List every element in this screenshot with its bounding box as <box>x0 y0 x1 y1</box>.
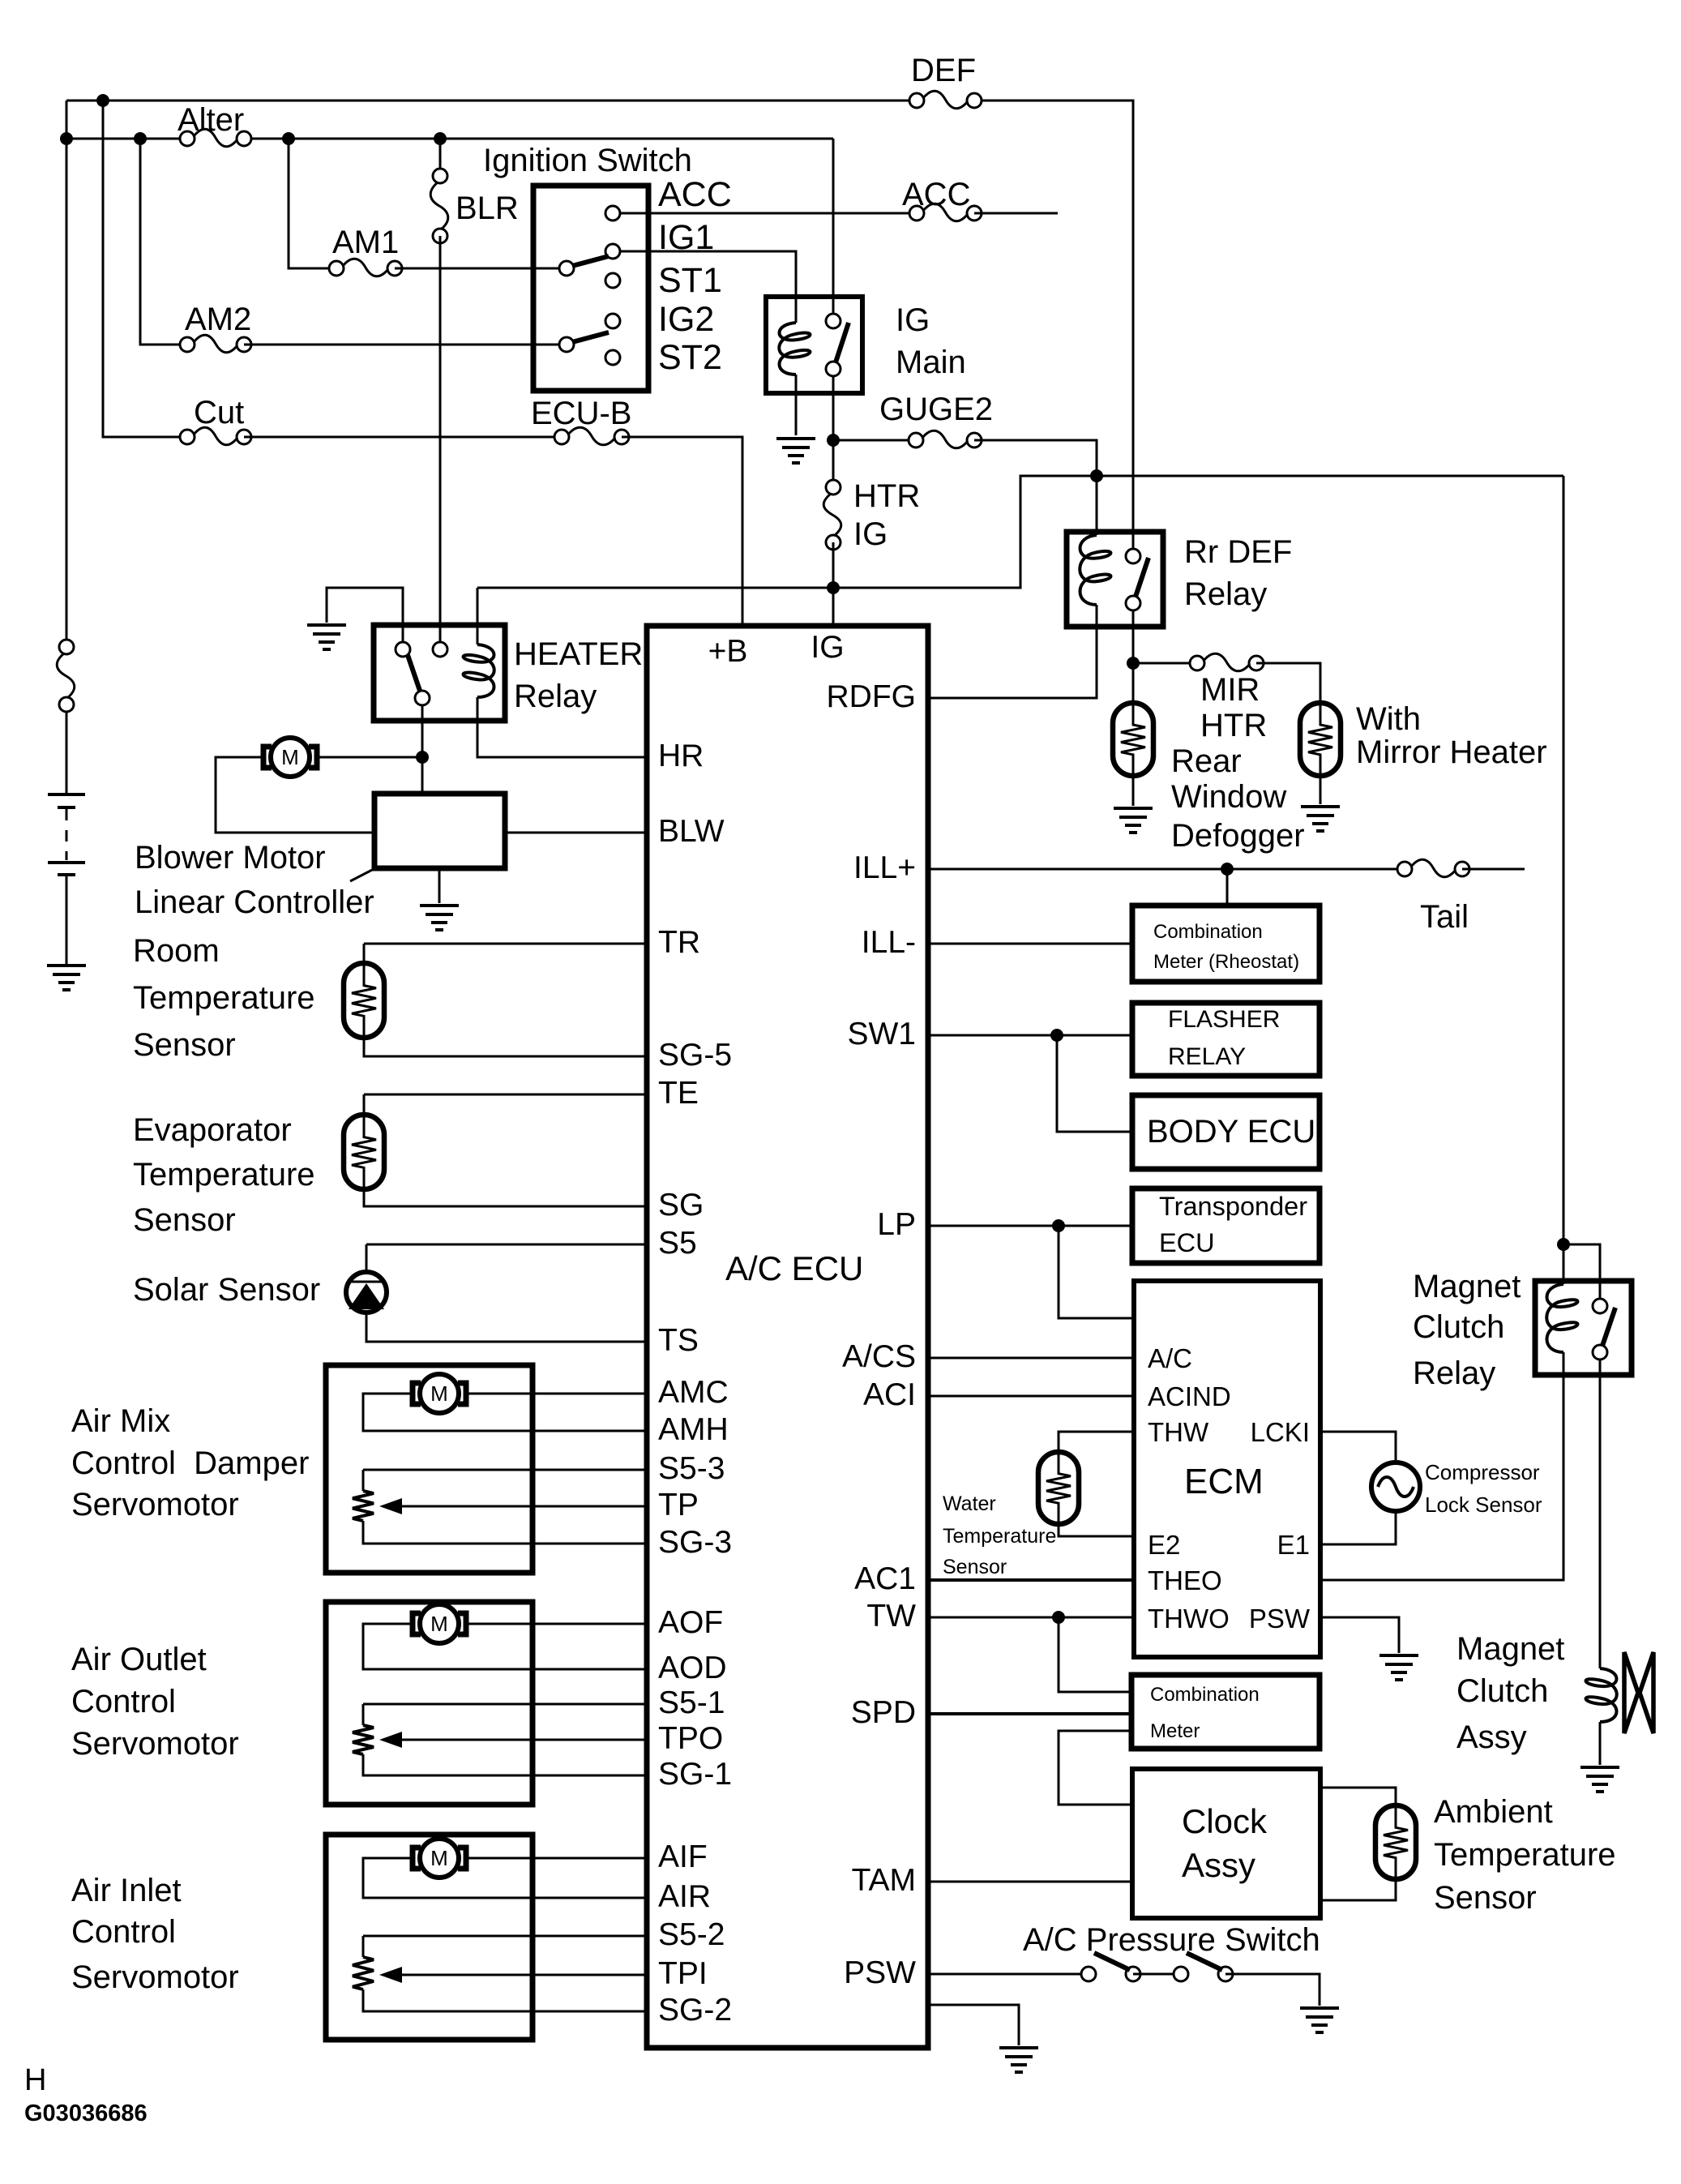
fuse battery main <box>57 640 75 712</box>
label RELAY <box>1168 1043 1246 1070</box>
wire PSW to switch <box>928 1973 1089 1976</box>
svg-text:S5-3: S5-3 <box>658 1451 725 1486</box>
svg-text:Air Inlet: Air Inlet <box>71 1873 182 1908</box>
air inlet control servomotor box <box>326 1835 533 2040</box>
junction GUGE2 node <box>1090 469 1103 482</box>
pin AC1 <box>854 1561 916 1596</box>
svg-text:SG-5: SG-5 <box>658 1038 732 1073</box>
svg-text:M: M <box>430 1612 448 1636</box>
fuse GUGE2 <box>909 430 982 448</box>
wire AM1 to ignition switch <box>395 268 560 270</box>
label pin IG1 <box>658 218 714 257</box>
pin ILL+ <box>853 850 916 885</box>
fuse HTR <box>823 480 841 550</box>
svg-text:BLR: BLR <box>456 191 519 226</box>
label Air Outlet <box>71 1642 207 1677</box>
label HEATER <box>514 636 643 672</box>
wire IG Main node to HTR fuse <box>832 440 835 487</box>
wire between switches <box>1133 1973 1181 1976</box>
wire to GUGE2 fuse <box>833 439 916 442</box>
potentiometer air inlet control servomotor <box>353 1957 374 1989</box>
wire IG Main coil to ground <box>795 375 798 435</box>
coil Rr DEF relay <box>1080 535 1110 605</box>
pin ACI <box>863 1377 916 1412</box>
wire LCKI <box>1320 1432 1396 1464</box>
svg-text:Sensor: Sensor <box>133 1202 236 1238</box>
wire BLR feed <box>439 139 442 176</box>
wire meter to clock assy <box>1059 1731 1132 1805</box>
label fuse AM2 <box>185 302 251 337</box>
wire Tail fuse output <box>1462 868 1525 871</box>
svg-text:ECU: ECU <box>1159 1228 1215 1257</box>
compressor lock sensor G1 <box>1371 1462 1420 1511</box>
ignition switch S1 <box>533 186 648 391</box>
svg-text:LCKI: LCKI <box>1251 1417 1310 1447</box>
svg-text:S5: S5 <box>658 1226 697 1261</box>
wire ACC pin to fuse <box>613 212 917 215</box>
wire heater switch to blower node <box>421 704 424 757</box>
wire AM2 to ignition switch <box>244 344 560 346</box>
svg-text:AIF: AIF <box>658 1839 708 1874</box>
wire ambient to clock bottom <box>1320 1878 1396 1900</box>
Magnet Clutch relay contacts <box>1593 1299 1607 1360</box>
junction IG Main output node <box>827 434 840 447</box>
ground A/C ECU <box>999 2048 1038 2072</box>
ignition switch contact circles <box>559 206 620 365</box>
svg-text:Relay: Relay <box>1184 576 1267 612</box>
wire S5 down <box>366 1244 368 1273</box>
fuse DEF <box>909 91 982 109</box>
fuse AM2 <box>180 335 251 353</box>
svg-text:E1: E1 <box>1277 1530 1310 1560</box>
svg-text:THEO: THEO <box>1148 1565 1222 1595</box>
label Rr DEF Relay <box>1184 576 1267 612</box>
wire air mix control damper servomotor motor out <box>468 1393 647 1395</box>
pin AOF <box>658 1605 723 1640</box>
body ECU box <box>1132 1095 1320 1169</box>
wire AC1 <box>928 1578 1134 1582</box>
fuse AM1 <box>329 259 402 276</box>
svg-text:Assy: Assy <box>1456 1719 1527 1755</box>
junction IG node <box>827 581 840 594</box>
junction magnet clutch relay feed <box>1557 1238 1570 1251</box>
wire S5 to solar sensor <box>366 1244 647 1246</box>
svg-text:Lock Sensor: Lock Sensor <box>1425 1492 1542 1517</box>
battery B1 <box>48 794 85 875</box>
wire AM2 feed <box>140 139 187 345</box>
solar sensor SS1 <box>346 1272 387 1313</box>
wire battery rail left <box>66 101 68 640</box>
wire ILL+ <box>928 868 1405 871</box>
label Solar Sensor <box>133 1272 320 1308</box>
svg-text:Rr DEF: Rr DEF <box>1184 534 1292 570</box>
svg-text:HTR: HTR <box>1200 708 1267 743</box>
svg-text:TW: TW <box>866 1599 916 1634</box>
pin TE <box>658 1076 699 1111</box>
svg-text:Control: Control <box>71 1914 176 1950</box>
svg-text:AM2: AM2 <box>185 302 251 337</box>
fuse Tail <box>1397 859 1469 877</box>
pin AIR <box>658 1879 711 1914</box>
label Lock Sensor <box>1425 1492 1542 1517</box>
label HEATER Relay <box>514 679 597 714</box>
wire IG1 pin to IG Main relay coil <box>613 251 796 323</box>
wire GUGE2 node left branch down to IG node <box>833 476 1097 588</box>
svg-text:AMC: AMC <box>658 1375 729 1410</box>
wire air mix control damper servomotor wiper <box>402 1505 647 1508</box>
svg-text:SW1: SW1 <box>847 1017 916 1051</box>
svg-text:Meter: Meter <box>1150 1720 1200 1742</box>
svg-text:Servomotor: Servomotor <box>71 1959 239 1995</box>
wire relay switch to clutch coil <box>1599 1359 1602 1668</box>
pin RDFG <box>827 679 917 714</box>
junction top bus / Cut branch <box>96 94 109 107</box>
pin S5 <box>658 1226 697 1261</box>
svg-text:THW: THW <box>1148 1417 1209 1447</box>
wire evap sensor to SG <box>364 1188 647 1206</box>
wire heater coil to HR pin <box>477 697 647 757</box>
svg-text:Cut: Cut <box>194 395 244 430</box>
wire air outlet control servomotor motor return <box>363 1624 647 1669</box>
pin TW <box>866 1599 916 1634</box>
svg-text:THWO: THWO <box>1148 1604 1230 1634</box>
junction TW branch <box>1052 1611 1065 1624</box>
pressure switch blade 1 <box>1094 1953 1130 1970</box>
label Ambient Sensor <box>1434 1880 1537 1916</box>
svg-text:A/C ECU: A/C ECU <box>725 1249 863 1287</box>
svg-text:AMH: AMH <box>658 1412 729 1447</box>
motor M air outlet control servomotor <box>413 1604 466 1643</box>
label fuse ECU-B <box>531 396 631 431</box>
pin TPO <box>658 1721 723 1756</box>
label Magnet (assy) <box>1456 1631 1564 1667</box>
wire SW1 to BODY ECU <box>1057 1035 1132 1132</box>
svg-text:IG: IG <box>811 630 844 665</box>
fuse Cut <box>180 427 251 445</box>
wire water sensor to E2 <box>1059 1522 1134 1536</box>
label With <box>1356 701 1421 737</box>
wire IG Main switch to HTR/GUGE2 node <box>832 375 835 440</box>
svg-text:TP: TP <box>658 1488 699 1522</box>
transponder ECU box <box>1132 1188 1320 1263</box>
wire air inlet control servomotor motor return <box>363 1858 647 1898</box>
svg-text:+B: +B <box>708 634 748 669</box>
label Blower Motor <box>135 840 326 876</box>
svg-text:Air Mix: Air Mix <box>71 1403 170 1439</box>
label Magnet (relay) <box>1413 1269 1521 1304</box>
wire Cut feed <box>103 101 187 437</box>
clock assy box <box>1132 1769 1320 1918</box>
pin LP <box>877 1207 916 1242</box>
label Clock <box>1182 1802 1268 1840</box>
svg-text:Temperature: Temperature <box>1434 1837 1616 1873</box>
wire ECM PSW to ground <box>1320 1617 1399 1653</box>
label Evaporator <box>133 1112 292 1148</box>
junction defogger node <box>1127 657 1140 670</box>
svg-text:ACIND: ACIND <box>1148 1381 1231 1411</box>
svg-text:BODY ECU: BODY ECU <box>1147 1114 1315 1150</box>
label Evap Sensor <box>133 1202 236 1238</box>
ECM pin LCKI <box>1251 1417 1310 1447</box>
svg-text:Relay: Relay <box>514 679 597 714</box>
evaporator temperature sensor ET1 <box>344 1115 384 1189</box>
label pin ST1 <box>658 261 722 300</box>
svg-text:M: M <box>430 1381 448 1406</box>
svg-text:ACC: ACC <box>658 175 732 214</box>
fuse Alter <box>180 129 251 147</box>
svg-text:HEATER: HEATER <box>514 636 643 672</box>
svg-text:E2: E2 <box>1148 1530 1180 1560</box>
motor M blower <box>263 738 317 777</box>
svg-text:Mirror Heater: Mirror Heater <box>1356 734 1547 770</box>
ECM pin THW <box>1148 1417 1209 1447</box>
wire node to MIR HTR fuse <box>1133 662 1197 665</box>
switch blade AM2 contact <box>572 332 609 342</box>
pin HR <box>658 739 704 773</box>
wire air mix control damper servomotor pot supply down <box>362 1470 365 1491</box>
combination meter box <box>1131 1675 1320 1749</box>
svg-text:Control Damper: Control Damper <box>71 1445 309 1481</box>
svg-text:Clock: Clock <box>1182 1802 1268 1840</box>
Rr DEF relay contacts <box>1126 549 1140 610</box>
ground pressure switch <box>1300 2008 1339 2032</box>
room temperature sensor RT1 <box>344 963 384 1038</box>
junction alt bus / BLR branch <box>434 132 447 145</box>
svg-text:Assy: Assy <box>1182 1846 1255 1884</box>
wire LP to ECM <box>1059 1226 1134 1318</box>
coil HEATER relay <box>464 644 494 697</box>
ECM pin THEO <box>1148 1565 1222 1595</box>
svg-text:AM1: AM1 <box>332 225 399 260</box>
svg-text:Clutch: Clutch <box>1413 1309 1504 1345</box>
switch blade HEATER relay <box>408 655 420 691</box>
svg-text:TPO: TPO <box>658 1721 723 1756</box>
wire room sensor to SG-5 <box>364 1036 647 1056</box>
svg-text:SG-3: SG-3 <box>658 1525 732 1560</box>
label BODY ECU <box>1147 1114 1315 1150</box>
pin S5-2 <box>658 1917 725 1952</box>
wire ILL- <box>928 943 1132 945</box>
switch blade IG Main <box>836 323 849 362</box>
svg-text:SG-2: SG-2 <box>658 1993 732 2028</box>
pin SW1 <box>847 1017 916 1051</box>
rear window defogger heater H1 <box>1113 703 1153 776</box>
label Air Mix <box>71 1403 170 1439</box>
wire blower node to blower controller <box>421 757 424 794</box>
wire node to defogger <box>1132 663 1135 706</box>
svg-text:Compressor: Compressor <box>1425 1460 1540 1484</box>
relay Rr DEF <box>1067 532 1163 627</box>
svg-text:A/CS: A/CS <box>842 1339 916 1374</box>
fuse MIR HTR <box>1190 653 1264 671</box>
ground magnet clutch assy <box>1580 1767 1619 1792</box>
svg-text:TS: TS <box>658 1323 699 1358</box>
pin AMC <box>658 1375 729 1410</box>
svg-text:Ambient: Ambient <box>1434 1794 1553 1830</box>
pin SG-5 <box>658 1038 732 1073</box>
ECM pin E2 <box>1148 1530 1180 1560</box>
motor M air mix control damper servomotor <box>413 1374 466 1413</box>
wire alt bus to IG Main switch <box>832 139 835 315</box>
fuse ACC <box>909 203 982 221</box>
HEATER relay contacts <box>396 642 447 705</box>
wire ECU ground <box>928 2005 1019 2045</box>
pin SG <box>658 1188 704 1223</box>
svg-text:Solar Sensor: Solar Sensor <box>133 1272 320 1308</box>
fuse BLR <box>430 169 448 243</box>
svg-text:S5-2: S5-2 <box>658 1917 725 1952</box>
svg-text:SG-1: SG-1 <box>658 1757 732 1792</box>
label Rr DEF <box>1184 534 1292 570</box>
wire +B top bus <box>66 100 917 102</box>
wire air inlet control servomotor motor out <box>468 1857 647 1860</box>
junction SW1 branch <box>1050 1029 1063 1042</box>
ECM pin E1 <box>1277 1530 1310 1560</box>
label Room <box>133 933 220 969</box>
pin SG-2 <box>658 1993 732 2028</box>
relay HEATER <box>374 625 505 721</box>
pointer line blower label <box>350 868 375 881</box>
wire to relay switch <box>1563 1244 1600 1301</box>
svg-text:Servomotor: Servomotor <box>71 1726 239 1762</box>
label fuse Cut <box>194 395 244 430</box>
wire DEF fuse to right corner then down to Rr DEF relay switch <box>974 101 1133 556</box>
label Defogger <box>1171 818 1305 854</box>
wire lock sensor to E1 <box>1320 1510 1396 1544</box>
pin TAM <box>852 1863 916 1898</box>
label Clutch (assy) <box>1456 1673 1548 1709</box>
svg-text:Linear Controller: Linear Controller <box>135 884 374 920</box>
svg-text:Main: Main <box>896 345 966 380</box>
label Water Temperature <box>943 1525 1056 1548</box>
label Transponder ECU <box>1159 1228 1215 1257</box>
svg-text:ILL+: ILL+ <box>853 850 916 885</box>
label A/C ECU <box>725 1249 863 1287</box>
svg-text:M: M <box>281 745 299 769</box>
wire ACI <box>928 1395 1134 1398</box>
ECM U3 <box>1134 1281 1320 1657</box>
svg-text:Defogger: Defogger <box>1171 818 1305 854</box>
svg-text:A/C Pressure Switch: A/C Pressure Switch <box>1023 1922 1320 1958</box>
ground mirror heater <box>1301 807 1340 831</box>
svg-text:TPI: TPI <box>658 1956 708 1991</box>
label Compressor <box>1425 1460 1540 1484</box>
svg-text:Blower Motor: Blower Motor <box>135 840 326 876</box>
wire right rail <box>1563 476 1565 1284</box>
wire LP <box>928 1225 1132 1227</box>
coil IG Main relay <box>779 323 810 375</box>
potentiometer air outlet control servomotor <box>353 1725 374 1754</box>
relay IG Main <box>766 297 862 393</box>
label fuse HTR IG <box>853 516 888 552</box>
switch blade Rr DEF <box>1136 558 1148 597</box>
svg-text:SPD: SPD <box>851 1695 916 1730</box>
label Air Inlet Servomotor <box>71 1959 239 1995</box>
junction LP branch <box>1052 1219 1065 1232</box>
wire clutch coil to ground <box>1599 1722 1602 1765</box>
label fuse DEF <box>911 53 976 88</box>
svg-text:Sensor: Sensor <box>1434 1880 1537 1916</box>
svg-text:Combination: Combination <box>1153 921 1263 943</box>
label Meter <box>1150 1720 1200 1742</box>
wire GUGE2 output <box>974 440 1097 476</box>
wire ECU-B to A/C ECU +B pin <box>622 437 742 626</box>
pin AIF <box>658 1839 708 1874</box>
label Combination (meter) <box>1150 1684 1260 1706</box>
wire heater coil feed down <box>477 588 479 644</box>
wire MIR HTR fuse to mirror heater <box>1256 663 1320 706</box>
svg-text:TAM: TAM <box>852 1863 916 1898</box>
pin +B <box>708 634 748 669</box>
wire A/CS <box>928 1357 1134 1360</box>
ECM pin THWO <box>1148 1604 1230 1634</box>
svg-text:ECM: ECM <box>1184 1462 1264 1501</box>
pin S5-1 <box>658 1685 725 1720</box>
wire TW branch to combination meter <box>1059 1617 1131 1692</box>
wire TE to evap sensor <box>363 1094 366 1118</box>
svg-text:Sensor: Sensor <box>943 1556 1007 1578</box>
label fuse ACC <box>902 177 970 212</box>
pressure switch contacts 1 <box>1081 1967 1140 1981</box>
wire TAM <box>928 1881 1132 1883</box>
pin PSW <box>844 1955 916 1990</box>
svg-text:Servomotor: Servomotor <box>71 1487 239 1522</box>
svg-text:Sensor: Sensor <box>133 1027 236 1063</box>
ECM pin ACIND <box>1148 1381 1231 1411</box>
wire controller to ground <box>438 868 441 903</box>
svg-text:RELAY: RELAY <box>1168 1043 1246 1070</box>
pin SG-3 <box>658 1525 732 1560</box>
svg-text:DEF: DEF <box>911 53 976 88</box>
wire HTR fuse to IG node <box>832 542 835 588</box>
wire alternator bus <box>66 138 187 140</box>
pin BLW <box>658 814 725 849</box>
ground IG Main relay <box>776 439 815 463</box>
label Meter (Rheostat) <box>1153 951 1299 973</box>
label Clutch (relay) <box>1413 1309 1504 1345</box>
wire motor to node <box>319 756 422 759</box>
wire defogger to ground <box>1132 774 1135 806</box>
ECM pin A/C <box>1148 1343 1192 1373</box>
svg-text:AOD: AOD <box>658 1651 727 1685</box>
svg-text:PSW: PSW <box>1249 1604 1311 1634</box>
wire solar sensor to TS <box>366 1312 647 1342</box>
switch blade Magnet Clutch relay <box>1602 1308 1615 1346</box>
wire Rr DEF coil to RDFG <box>928 605 1097 698</box>
fuse ECU-B <box>554 427 629 445</box>
label fuse Tail <box>1420 899 1469 935</box>
label Mirror Heater <box>1356 734 1547 770</box>
wire ILL+ down to rheostat <box>1226 869 1229 906</box>
wiper arrow air mix control damper servomotor <box>379 1498 402 1514</box>
svg-text:AC1: AC1 <box>854 1561 916 1596</box>
wire air inlet control servomotor pot supply down <box>362 1936 365 1957</box>
wire motor left to controller <box>216 757 374 833</box>
IG Main relay switch contacts <box>826 314 840 376</box>
wire SPD <box>928 1712 1131 1715</box>
label fuse BLR <box>456 191 519 226</box>
wire Cut to ECU-B fuse <box>244 436 562 439</box>
wire air mix control damper servomotor motor return <box>363 1394 647 1431</box>
label Evap Temperature <box>133 1157 315 1193</box>
relay Magnet Clutch <box>1535 1281 1632 1375</box>
switch blade AM1 contact <box>572 256 609 266</box>
junction blower motor node <box>416 751 429 764</box>
junction alt bus / battery rail <box>60 132 73 145</box>
label Air Outlet Control <box>71 1684 176 1719</box>
label HTR <box>1200 708 1267 743</box>
svg-text:PSW: PSW <box>844 1955 916 1990</box>
